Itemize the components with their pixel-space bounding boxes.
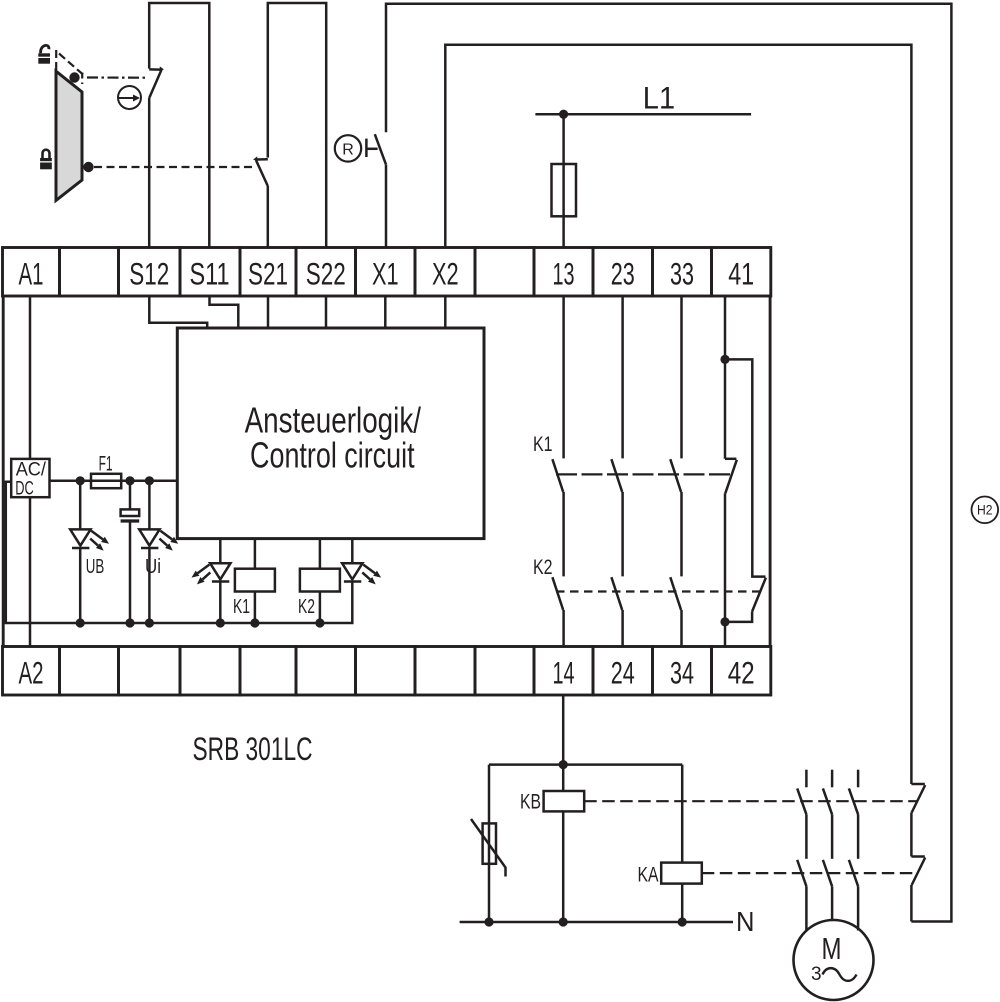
svg-text:SRB 301LC: SRB 301LC [193,731,313,767]
svg-text:K1: K1 [533,433,553,456]
svg-text:23: 23 [611,256,635,292]
svg-text:S12: S12 [129,256,169,292]
svg-text:S11: S11 [190,256,230,292]
svg-text:S21: S21 [248,256,288,292]
svg-text:K2: K2 [533,556,553,579]
svg-text:R: R [342,141,354,158]
svg-text:X2: X2 [432,256,459,292]
svg-text:UB: UB [86,556,105,578]
svg-text:K2: K2 [298,596,315,618]
svg-text:M: M [822,931,842,966]
svg-text:H2: H2 [977,503,993,518]
svg-text:X1: X1 [372,256,399,292]
svg-text:Ui: Ui [145,556,161,578]
svg-text:F1: F1 [99,452,113,475]
svg-text:A1: A1 [19,256,44,292]
svg-text:AC/: AC/ [16,459,47,480]
svg-text:Control circuit: Control circuit [250,435,415,476]
svg-text:41: 41 [728,256,754,292]
svg-text:3: 3 [811,964,822,985]
svg-text:N: N [736,906,755,937]
svg-text:24: 24 [611,655,635,691]
svg-text:34: 34 [670,655,694,691]
svg-text:13: 13 [553,256,575,292]
svg-text:KA: KA [638,863,659,886]
svg-text:K1: K1 [233,596,250,618]
svg-text:S22: S22 [306,256,346,292]
svg-text:42: 42 [728,655,755,691]
svg-text:L1: L1 [643,80,675,115]
svg-text:DC: DC [15,478,34,499]
svg-text:A2: A2 [19,655,44,691]
svg-text:33: 33 [670,256,694,292]
svg-text:14: 14 [553,655,575,691]
svg-text:KB: KB [520,791,541,814]
